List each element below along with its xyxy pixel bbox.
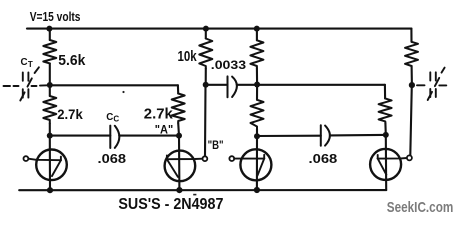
node bottom SUS1 [47,187,53,193]
svg-text:.0033: .0033 [211,58,247,72]
wire through SUS3 [256,136,258,190]
svg-text:2.7k: 2.7k [144,107,174,123]
wire branch4 top lead [256,29,258,41]
wire 10k top lead [205,29,207,39]
node bottom SUS2 [176,187,182,193]
wire node down to terminal B [204,85,207,156]
svg-text:SeekIC.com: SeekIC.com [387,200,454,216]
svg-text:.068: .068 [309,151,338,166]
node top rail / branch1 [46,26,52,32]
SUS U4 inner stub [377,155,379,159]
SUS U3 inner diagonal [257,159,264,176]
terminal B open circle [203,156,208,161]
wire through SUS1 [49,136,51,191]
SUS U4 inner diagonal [378,159,387,175]
wire branch2 corner down [177,85,179,93]
SUS U4 gate terminal [407,155,412,160]
SUS U1 gate wire + inner bar [28,159,61,161]
SUS U3 inner stub [263,155,265,159]
SUS U3 circle [240,149,271,180]
wire branch1 top lead [49,29,51,40]
wire node to lower resistor [256,85,258,100]
SUS U3 gate terminal [229,156,234,161]
wire lower-left line to CC [50,135,111,137]
svg-text:5.6k: 5.6k [58,53,86,69]
SUS U1 inner stub [60,157,62,161]
wire .0033 to far right corner [237,84,385,86]
svg-text:"A": "A" [155,125,173,137]
speck above 2N4987 [193,194,196,196]
wire mid-line left [50,84,178,86]
resistor R 5.6k [43,40,56,63]
wire right top vertical drop [410,29,412,42]
resistor branch4 upper [250,40,263,68]
svg-text:C: C [106,112,113,123]
capacitor .0033 curved plate [232,77,237,97]
svg-text:V=15 volts: V=15 volts [30,9,81,24]
wire through SUS4 [385,135,388,190]
capacitor CT (dashed phantom variable cap) [4,67,48,100]
wire node down to SUS4 gate terminal [410,85,412,155]
SUS U4 inner bar + gate wire [378,157,407,160]
SUS U1 circle [36,150,67,181]
wire 10k to node [205,68,207,84]
wire mid-line right: node to .0033 [206,84,228,86]
SUS U3 gate wire + inner bar [234,158,264,160]
wire bottom rail [19,189,386,191]
speck [122,91,124,93]
wire to node [256,129,258,136]
node right dashed cap [409,82,415,88]
wire resistor to node [411,66,413,85]
wire top rail [27,28,411,30]
svg-text:C: C [21,57,28,68]
wire 2.7k to node A1 [49,123,51,135]
capacitor CC left plate [109,126,111,148]
capacitor .068 right: curved plate [325,126,330,146]
wire .068 to node SUS4 [330,134,386,137]
resistor R 2.7k left [43,96,56,123]
SUS U2 inner stub [166,155,168,159]
resistor branch4 lower [251,100,264,130]
wire to node [256,68,258,85]
SUS U2 inner diagonal [167,159,178,177]
capacitor .068 right: left plate [320,125,322,145]
svg-text:2.7k: 2.7k [57,106,83,122]
resistor branch5 [379,98,392,123]
wire CC to SUS2 branch [119,135,179,137]
svg-text:T: T [28,60,33,69]
node branch1 lower [47,133,53,139]
node top rail / 10k branch [203,26,209,32]
wire 5.6k to node [49,63,51,85]
node SUS4 anode [383,132,389,138]
SUS U1 gate terminal [24,156,29,161]
node branch4 mid [254,82,260,88]
SUS U1 inner diagonal [52,160,61,176]
svg-text:"B": "B" [208,140,224,152]
wire resistor to node [384,123,386,135]
wire through SUS2 [178,136,180,191]
capacitor dashed phantom right [417,68,446,100]
svg-text:.068: .068 [98,151,127,166]
wire far right corner down to resistor [384,85,386,99]
node A [176,133,182,139]
wire node to 2.7k [49,85,51,96]
node top rail / branch4 [254,26,260,32]
resistor R 10k [199,39,212,69]
svg-text:SUS'S - 2N4987: SUS'S - 2N4987 [118,196,223,213]
svg-text:10k: 10k [178,48,198,65]
node bottom SUS3 [254,187,260,193]
SUS U2 inner bar + gate wire [167,158,203,161]
SUS U4 circle [370,149,401,180]
resistor branch6 (rightmost) [405,42,418,66]
svg-text:C: C [113,115,119,124]
capacitor .0033 left plate [227,76,229,97]
wire lower-right line to .068 [257,135,321,137]
capacitor CC curved plate [115,126,120,148]
resistor R 2.7k A [172,94,185,124]
SUS U2 circle [165,151,196,182]
node B-branch mid [203,82,209,88]
node branch1 mid [47,82,53,88]
wire 2.7kA to node [177,123,180,136]
node branch4 lower [254,133,260,139]
